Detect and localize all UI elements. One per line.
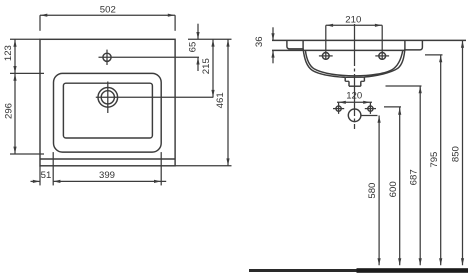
svg-text:120: 120 [346, 91, 362, 102]
svg-text:210: 210 [345, 14, 361, 25]
svg-text:51: 51 [41, 170, 52, 181]
svg-text:65: 65 [187, 42, 198, 53]
svg-text:850: 850 [451, 146, 462, 162]
svg-text:36: 36 [254, 36, 265, 47]
svg-text:123: 123 [3, 45, 14, 61]
svg-text:687: 687 [408, 169, 419, 185]
svg-text:296: 296 [4, 103, 15, 119]
svg-text:502: 502 [100, 4, 116, 15]
svg-text:399: 399 [99, 170, 115, 181]
svg-text:600: 600 [388, 181, 399, 197]
svg-text:795: 795 [429, 152, 440, 168]
svg-text:461: 461 [215, 92, 226, 108]
svg-text:580: 580 [367, 183, 378, 199]
svg-text:215: 215 [201, 58, 212, 74]
